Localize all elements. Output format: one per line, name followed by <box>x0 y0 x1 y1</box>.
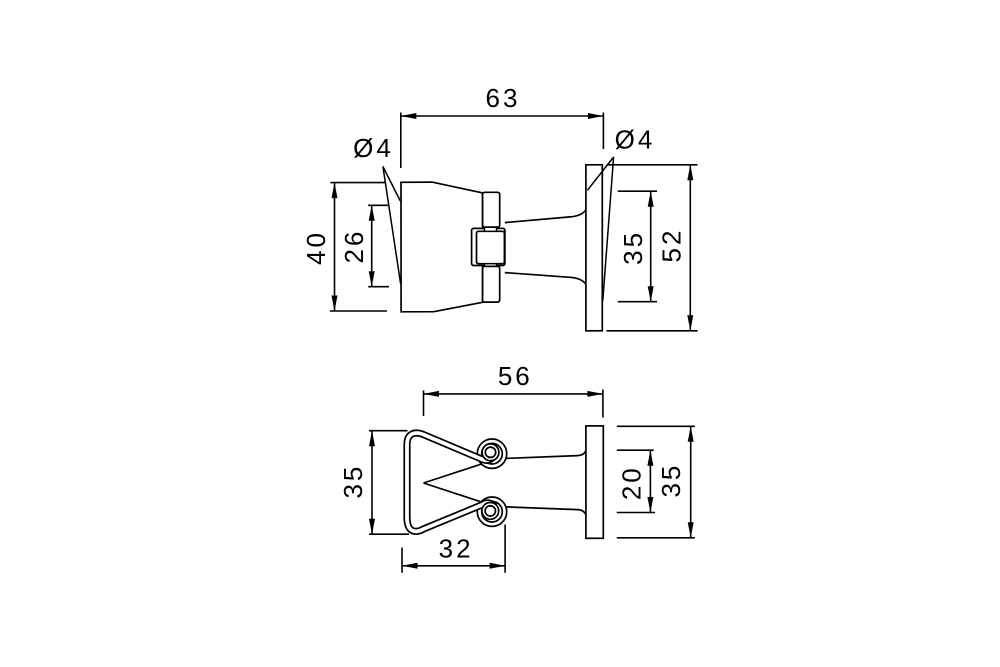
stem bottom edge (plan) <box>506 507 586 515</box>
dimension 52 <box>607 165 698 331</box>
leader arrow Ø4 left <box>383 166 401 283</box>
svg-text:Ø4: Ø4 <box>353 133 394 163</box>
svg-text:32: 32 <box>439 533 474 563</box>
wall plate (side view) <box>586 165 602 331</box>
hinge C-bracket <box>472 228 505 265</box>
svg-text:56: 56 <box>498 361 533 391</box>
lower coil inner winding <box>486 507 494 515</box>
svg-text:35: 35 <box>656 463 686 498</box>
wire clip loop <box>407 433 495 531</box>
dimension 35 (upper view right) <box>618 191 657 302</box>
dimension 40 <box>330 183 387 311</box>
dimension 35 (lower view left) <box>369 431 409 535</box>
hinge tab upper <box>485 227 497 231</box>
knob body <box>401 182 483 312</box>
dimension 20 <box>617 450 655 512</box>
V tip lines <box>424 464 482 483</box>
dimension 63 <box>401 113 604 169</box>
svg-text:35: 35 <box>618 230 648 265</box>
dimension 32 <box>402 525 505 573</box>
svg-text:40: 40 <box>301 230 331 265</box>
hinge leaf upper <box>483 192 500 227</box>
svg-text:26: 26 <box>339 229 369 264</box>
leader arrow Ø4 right <box>587 157 613 301</box>
stem top edge <box>505 210 586 223</box>
svg-text:63: 63 <box>486 83 521 113</box>
stem bottom edge <box>505 273 586 285</box>
svg-text:52: 52 <box>656 228 686 263</box>
dimension 35 (lower view right) <box>617 426 695 538</box>
upper coil outer winding <box>480 441 505 466</box>
svg-text:20: 20 <box>616 465 646 500</box>
hinge inner block <box>477 231 505 263</box>
svg-text:35: 35 <box>338 464 368 499</box>
svg-text:Ø4: Ø4 <box>615 125 656 155</box>
stem top edge (plan) <box>506 450 586 458</box>
upper coil inner winding <box>486 448 494 456</box>
dimension 26 <box>368 205 389 286</box>
wall plate (plan) <box>586 426 603 538</box>
dimension 56 <box>424 390 603 418</box>
hinge leaf lower <box>483 266 500 302</box>
hinge tab lower <box>485 264 497 267</box>
lower coil outer winding <box>480 499 505 524</box>
